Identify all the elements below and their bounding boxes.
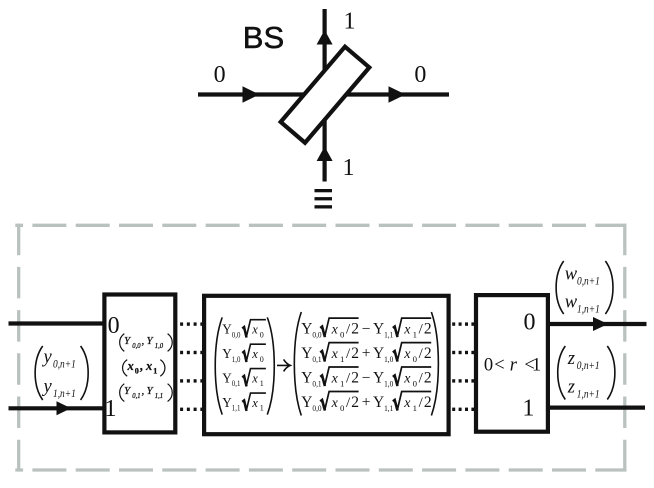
svg-text:1: 1	[522, 395, 534, 421]
input state vector (y0,n+1 ; y1,n+1)	[35, 346, 88, 400]
svg-text:1,n+1: 1,n+1	[577, 301, 600, 315]
svg-text:1,1: 1,1	[232, 404, 241, 413]
box U2 left column row Y1,0 sqrt(x0)	[222, 344, 266, 364]
svg-text:0,n+1: 0,n+1	[577, 358, 600, 372]
svg-text:2: 2	[351, 369, 359, 386]
svg-text:1,0: 1,0	[155, 341, 163, 350]
svg-text:x: x	[251, 323, 258, 337]
svg-text:r: r	[510, 355, 518, 375]
wire: horizontal beam through BS	[198, 92, 449, 96]
arrowhead on top output beam (pointing up)	[317, 30, 333, 45]
box U3 reflectivity label 0<r<1	[484, 355, 541, 375]
svg-text:0,1: 0,1	[312, 378, 321, 388]
output wire 1 (bottom right)	[548, 406, 645, 410]
svg-text:2: 2	[424, 394, 432, 411]
svg-text:x: x	[403, 323, 411, 338]
arrowhead on output wire 0	[593, 317, 608, 331]
svg-text:0: 0	[260, 330, 264, 339]
svg-text:x: x	[251, 347, 258, 361]
svg-text:x: x	[331, 371, 339, 386]
svg-text:Y: Y	[222, 370, 232, 385]
svg-text:y: y	[42, 348, 53, 368]
svg-text:Y: Y	[124, 335, 132, 347]
box U1 row (Y01,Y11)	[120, 384, 173, 402]
svg-text:0: 0	[414, 62, 426, 88]
svg-text:x: x	[331, 396, 339, 411]
svg-text:x: x	[251, 396, 258, 410]
svg-text:Y: Y	[373, 369, 384, 386]
svg-text:+: +	[362, 345, 371, 362]
svg-text:1,0: 1,0	[384, 354, 394, 364]
box U2 right column row Y0,1 sqrt(x1/2) − Y1,0 sqrt(x0/2)	[301, 367, 431, 388]
box U2 right column vector parens	[294, 312, 301, 416]
svg-text:/: /	[346, 322, 351, 338]
svg-text:0: 0	[484, 355, 493, 375]
box U2 right column row Y0,1 sqrt(x1/2) + Y1,0 sqrt(x0/2)	[301, 343, 431, 364]
box U2 left column vector parens	[215, 317, 222, 414]
svg-text:0: 0	[340, 330, 345, 340]
dotted connection box2-box3 row D	[452, 408, 474, 411]
box U1: input coupler	[104, 295, 175, 433]
svg-text:1: 1	[260, 404, 264, 413]
svg-text:1,1: 1,1	[384, 403, 393, 413]
svg-text:z: z	[567, 378, 575, 398]
svg-text:1: 1	[413, 330, 417, 340]
svg-text:1,0: 1,0	[232, 355, 241, 364]
svg-text:0,n+1: 0,n+1	[577, 273, 600, 287]
svg-text:1: 1	[340, 378, 344, 388]
svg-text:w: w	[565, 292, 578, 312]
svg-text:x: x	[403, 371, 411, 386]
svg-text:1,1: 1,1	[384, 330, 393, 340]
dotted connection box2-box3 row C	[452, 379, 474, 382]
arrowhead on left input beam	[243, 86, 260, 102]
svg-text:Y: Y	[124, 385, 132, 397]
svg-text:0: 0	[135, 367, 139, 376]
svg-text:0,1: 0,1	[132, 391, 140, 400]
arrowhead on right output beam	[389, 86, 406, 102]
svg-text:Y: Y	[222, 395, 232, 410]
svg-text:Y: Y	[301, 345, 312, 362]
dotted connection box1-box2 row D	[180, 408, 203, 411]
dashed gray enclosure border bottom	[15, 468, 626, 471]
svg-text:1: 1	[153, 367, 157, 376]
svg-text:/: /	[419, 395, 424, 411]
svg-text:/: /	[346, 346, 351, 362]
wire: vertical beam through BS	[323, 9, 327, 182]
box U2 left column row Y1,1 sqrt(x1)	[222, 393, 266, 413]
svg-text:/: /	[346, 395, 351, 411]
svg-text:z: z	[567, 349, 575, 369]
svg-text:Y: Y	[222, 346, 232, 361]
svg-text:0: 0	[413, 354, 418, 364]
svg-text:/: /	[419, 322, 424, 338]
dotted connection box2-box3 row A	[452, 322, 474, 325]
svg-text:Y: Y	[147, 335, 155, 347]
svg-text:1,n+1: 1,n+1	[577, 387, 600, 401]
svg-text:0,0: 0,0	[132, 341, 140, 350]
dotted connection box1-box2 row A	[180, 322, 203, 325]
box U1 row (Y00,Y10)	[120, 334, 173, 352]
svg-text:1: 1	[532, 355, 541, 375]
svg-text:y: y	[42, 377, 53, 397]
svg-text:x: x	[127, 359, 134, 373]
svg-text:1,0: 1,0	[384, 378, 394, 388]
svg-text:Y: Y	[301, 369, 312, 386]
svg-text:,: ,	[140, 359, 143, 373]
box U2 left column row Y0,0 sqrt(x0)	[222, 320, 266, 340]
svg-text:Y: Y	[222, 322, 232, 337]
svg-text:w: w	[565, 264, 578, 284]
box U2 right column row Y0,0 sqrt(x0/2) − Y1,1 sqrt(x1/2)	[301, 318, 431, 339]
svg-text:−: −	[362, 321, 371, 338]
svg-text:1: 1	[413, 403, 417, 413]
dotted connection box2-box3 row B	[452, 351, 474, 354]
svg-text:−: −	[362, 369, 371, 386]
svg-text:Y: Y	[301, 321, 312, 338]
svg-text:0,n+1: 0,n+1	[53, 357, 76, 371]
svg-text:<: <	[494, 355, 504, 375]
svg-text:0: 0	[108, 313, 120, 339]
svg-text:0: 0	[340, 403, 345, 413]
svg-text:2: 2	[424, 321, 432, 338]
svg-text:0: 0	[413, 378, 418, 388]
box U2 mapping arrow	[277, 359, 290, 371]
output state vector (w0,n+1 ; w1,n+1)	[556, 261, 613, 315]
svg-text:x: x	[331, 347, 339, 362]
svg-text:1: 1	[340, 354, 344, 364]
svg-text:/: /	[346, 370, 351, 386]
svg-text:2: 2	[424, 345, 432, 362]
svg-text:/: /	[419, 370, 424, 386]
svg-text:x: x	[251, 371, 258, 385]
svg-text:Y: Y	[373, 345, 384, 362]
svg-text:2: 2	[351, 345, 359, 362]
svg-text:,: ,	[142, 385, 145, 397]
dashed gray enclosure border left	[17, 224, 20, 472]
dashed gray enclosure border top	[15, 224, 626, 227]
equivalence symbol (triple bar)	[315, 189, 333, 209]
svg-text:2: 2	[351, 394, 359, 411]
svg-text:1: 1	[343, 155, 355, 181]
svg-text:1: 1	[105, 396, 117, 422]
svg-text:1: 1	[260, 379, 264, 388]
svg-text:x: x	[331, 323, 339, 338]
svg-text:0,1: 0,1	[312, 354, 321, 364]
svg-text:,: ,	[142, 335, 145, 347]
svg-text:1,1: 1,1	[155, 391, 163, 400]
dotted connection box1-box2 row B	[180, 351, 203, 354]
svg-text:Y: Y	[373, 321, 384, 338]
svg-text:0: 0	[260, 355, 264, 364]
svg-text:/: /	[419, 346, 424, 362]
beam splitter BS: tilted mirror rectangle	[281, 47, 370, 143]
svg-text:0: 0	[214, 62, 226, 88]
svg-text:BS: BS	[243, 20, 284, 55]
svg-text:Y: Y	[301, 394, 312, 411]
svg-text:0,0: 0,0	[312, 330, 322, 340]
output state vector (z0,n+1 ; z1,n+1)	[558, 346, 615, 401]
svg-text:2: 2	[424, 369, 432, 386]
svg-text:2: 2	[351, 321, 359, 338]
svg-text:Y: Y	[373, 394, 384, 411]
output wire 0 (top right)	[548, 322, 647, 326]
svg-text:0,1: 0,1	[232, 379, 241, 388]
svg-text:1: 1	[344, 9, 356, 35]
dotted connection box1-box2 row C	[180, 379, 203, 382]
box U2 right column row Y0,0 sqrt(x0/2) + Y1,1 sqrt(x1/2)	[301, 392, 431, 413]
svg-text:0,0: 0,0	[232, 330, 241, 339]
svg-text:1,n+1: 1,n+1	[53, 386, 76, 400]
svg-text:+: +	[362, 394, 371, 411]
svg-text:x: x	[145, 359, 152, 373]
box U2: transformation	[204, 296, 449, 434]
input wire 1 (bottom left)	[9, 406, 107, 410]
dashed gray enclosure border right	[623, 224, 626, 472]
svg-text:x: x	[403, 347, 411, 362]
arrowhead on bottom input beam (pointing up)	[317, 147, 333, 162]
box U3: output coupler 0<r<1	[476, 295, 548, 432]
input wire 0 (top left)	[9, 321, 107, 325]
arrowhead on input wire 1	[57, 401, 72, 415]
svg-text:0,0: 0,0	[312, 403, 322, 413]
svg-text:x: x	[403, 396, 411, 411]
box U2 left column row Y0,1 sqrt(x1)	[222, 369, 266, 389]
svg-text:Y: Y	[147, 385, 155, 397]
svg-text:0: 0	[524, 309, 536, 335]
box U1 row (x0,x1)	[123, 359, 165, 376]
